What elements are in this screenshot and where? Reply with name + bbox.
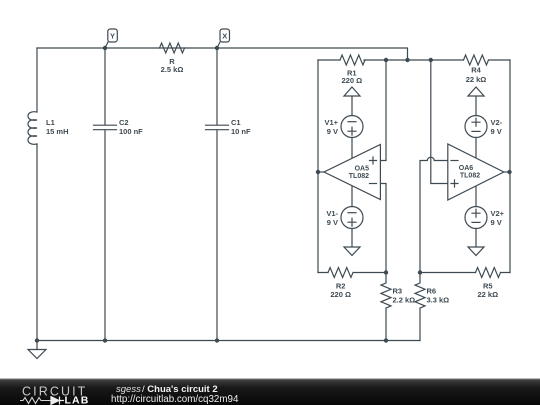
svg-text:C1: C1 — [231, 118, 241, 127]
op-amp U2 OA6 triangle — [448, 144, 504, 200]
junction dot OA5 output — [316, 170, 320, 174]
V1+ plus sign — [348, 127, 356, 135]
svg-text:22 kΩ: 22 kΩ — [477, 290, 498, 299]
svg-text:9 V: 9 V — [327, 127, 338, 136]
svg-text:220 Ω: 220 Ω — [341, 76, 362, 85]
junction dot C2 bottom — [103, 338, 107, 342]
V2+ plus sign — [472, 209, 480, 217]
op-amp U1 OA5 triangle — [324, 145, 380, 200]
capacitor C1 — [206, 48, 229, 341]
resistor R5 zigzag — [476, 268, 501, 278]
svg-text:V1+: V1+ — [324, 118, 338, 127]
junction dot R6 top — [418, 270, 422, 274]
wire OA5 output stub — [318, 171, 324, 173]
V1- plus sign — [348, 218, 356, 226]
power arrow down V2+ — [468, 247, 484, 256]
svg-text:R4: R4 — [471, 65, 481, 74]
wire OA5 plus input to top rail — [380, 60, 386, 161]
junction node Y dot — [103, 46, 107, 50]
OA5 minus input sign — [370, 183, 377, 185]
wire R2 row — [318, 272, 386, 274]
svg-text:TL082: TL082 — [460, 173, 480, 180]
V2- minus sign — [472, 130, 480, 132]
svg-text:R3: R3 — [393, 287, 403, 296]
svg-text:100 nF: 100 nF — [119, 127, 143, 136]
junction dot OA6 plus rail — [429, 58, 433, 62]
wire V2 column segments — [475, 96, 477, 247]
svg-text:http://circuitlab.com/cq32m94: http://circuitlab.com/cq32m94 — [111, 394, 239, 405]
junction dot OA6 output — [507, 170, 511, 174]
voltage source V2- circle — [465, 116, 487, 138]
voltage source V2+ circle — [465, 207, 487, 229]
resistor R2 zigzag — [328, 268, 353, 278]
svg-text:2.2 kΩ: 2.2 kΩ — [393, 296, 416, 305]
inductor L1 — [28, 112, 37, 145]
voltage source V1+ circle — [341, 116, 363, 138]
resistor R6 vertical — [415, 273, 425, 341]
svg-text:V2+: V2+ — [491, 209, 505, 218]
svg-text:22 kΩ: 22 kΩ — [466, 75, 487, 84]
svg-text:R6: R6 — [427, 287, 437, 296]
OA5 plus input sign — [370, 157, 377, 164]
wire R5 row — [420, 272, 510, 274]
voltage source V1- circle — [341, 207, 363, 229]
svg-text:TL082: TL082 — [349, 173, 369, 180]
wire OA6 plus input to top rail — [431, 60, 448, 184]
logo resistor glyph — [20, 398, 51, 404]
resistor R1 zigzag — [340, 55, 365, 65]
power arrow up V1+ — [344, 87, 360, 96]
wire left rail upper — [36, 48, 38, 112]
svg-text:OA6: OA6 — [459, 165, 474, 172]
resistor R3 vertical — [381, 273, 391, 341]
svg-text:9 V: 9 V — [327, 218, 338, 227]
svg-text:3.3 kΩ: 3.3 kΩ — [427, 296, 450, 305]
svg-text:15 mH: 15 mH — [46, 127, 69, 136]
wire OA6 output stub — [504, 171, 510, 173]
resistor R (zigzag) — [160, 43, 185, 53]
logo diode arrow glyph — [51, 397, 64, 405]
capacitor C2 — [94, 48, 117, 341]
wire left rail lower — [36, 144, 38, 350]
power arrow up V2- — [468, 87, 484, 96]
svg-text:V1-: V1- — [326, 209, 338, 218]
svg-text:X: X — [222, 32, 227, 41]
V1+ minus sign — [348, 121, 356, 123]
svg-text:220 Ω: 220 Ω — [330, 290, 351, 299]
svg-text:V2-: V2- — [491, 118, 503, 127]
ground — [28, 350, 46, 359]
node flag Y — [105, 42, 108, 48]
wire top horizontal from left rail to drop — [37, 48, 408, 60]
wire bottom horizontal — [37, 340, 420, 342]
junction dot C1 bottom — [215, 338, 219, 342]
wire mid rail y60 — [318, 59, 510, 61]
junction dot ground — [35, 338, 39, 342]
V1- minus sign — [348, 212, 356, 214]
svg-text:Y: Y — [110, 32, 115, 41]
power arrow down V1- — [344, 247, 360, 256]
wire OA6 minus input with hop — [420, 157, 448, 272]
V2+ minus sign — [472, 221, 480, 223]
wire V1 column segments — [351, 96, 353, 247]
wire right rail — [509, 60, 511, 273]
svg-text:10 nF: 10 nF — [231, 127, 251, 136]
node flag X — [217, 42, 220, 48]
wire OA5 left rail — [317, 60, 319, 273]
OA6 minus input sign — [451, 160, 458, 162]
V2- plus sign — [472, 118, 480, 126]
junction dot R2-R3 — [384, 270, 388, 274]
resistor R4 zigzag — [464, 55, 489, 65]
junction dot R3 bottom — [384, 338, 388, 342]
svg-text:9 V: 9 V — [491, 218, 502, 227]
svg-text:C2: C2 — [119, 118, 129, 127]
svg-text:9 V: 9 V — [491, 127, 502, 136]
svg-text:LAB: LAB — [65, 395, 90, 405]
junction dot R1 right — [384, 58, 388, 62]
OA6 plus input sign — [451, 180, 458, 187]
svg-text:L1: L1 — [46, 118, 55, 127]
junction dot top drop — [405, 58, 409, 62]
svg-text:OA5: OA5 — [355, 165, 370, 172]
footer bar — [0, 379, 540, 405]
svg-text:2.5 kΩ: 2.5 kΩ — [161, 65, 184, 74]
wire OA5 minus input to R2 junction — [380, 184, 386, 273]
junction node X dot — [215, 46, 219, 50]
